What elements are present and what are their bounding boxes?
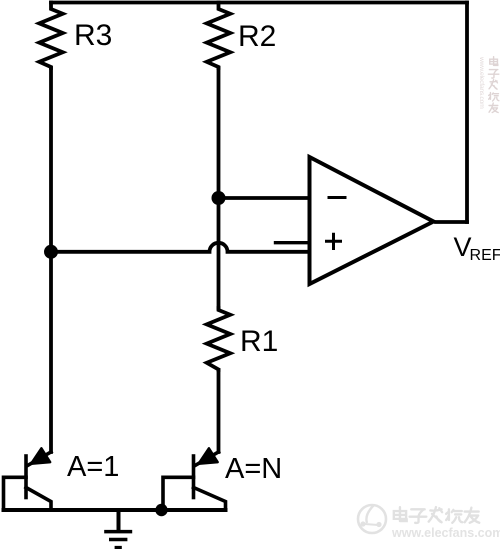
op-amp U1 [310,157,434,284]
transistor Q1 collector [26,488,51,511]
resistor R3 [39,3,63,69]
transistor Q2 collector [194,488,226,511]
watermark: elecfans logo bottom right [354,497,394,543]
wire: top rail from R3 top to feedback corner [51,1,467,5]
node: junction dot at R2/R1/minus-input [212,191,226,205]
ground symbol [117,510,121,530]
watermark: elecfans url vertical top right [478,57,485,108]
wire: Q1 base to ground rail [4,477,27,510]
wire: Q2 base down to ground rail [163,477,194,510]
wire: right feedback wire down to op-amp output [465,3,469,223]
label R1 [240,325,278,359]
label R3 [74,19,112,53]
wire: plus input stub into op-amp [276,241,308,244]
watermark: bottom-right "电子发烧友" [394,507,479,523]
transistor Q2 emitter arrow [199,448,218,464]
wire: op-amp output to feedback corner [436,220,467,224]
op-amp U1 minus sign [329,196,345,199]
wire: minus input wire from node to op-amp [219,196,308,200]
transistor Q1 (A=1) base bar [24,456,28,498]
wire: plus wire from left node with hop over middle column [51,243,308,252]
wire: middle column from R2 bottom to node at minus input [217,68,221,198]
transistor Q1 emitter arrow [31,448,50,464]
label VREF [454,232,500,266]
label A=1 [67,451,119,484]
node: junction dot on left column [44,245,58,259]
label R2 [238,20,276,54]
wire: left column from R3 bottom to Q1 emitter [49,68,53,452]
resistor R2 [207,3,231,69]
transistor Q2 emitter diagonal [195,452,219,466]
watermark: elecfans url bottom right [392,526,500,540]
wire: bottom ground rail [4,508,226,512]
op-amp U1 plus sign [327,234,341,248]
transistor Q2 (A=N) base bar [192,456,196,498]
watermark: top-right vertical "电子发烧友" [488,57,499,113]
transistor Q1 emitter diagonal [28,452,52,466]
node: junction dot where Q2 base meets ground rail [155,504,167,516]
wire: middle column from node down through hop to R1 top [217,198,221,308]
wire: middle column from R1 bottom to Q2 emitter [217,370,221,452]
resistor R1 [207,308,231,370]
label A=N [225,453,282,486]
